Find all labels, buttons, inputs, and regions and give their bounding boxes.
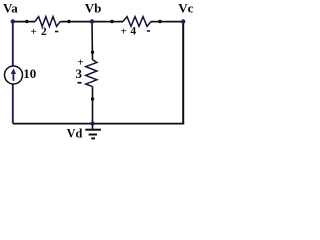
svg-text:+: + (30, 26, 36, 38)
wire Vb down to R3 (91, 22, 94, 60)
svg-text:+: + (120, 25, 126, 37)
resistor R1 terminal dot left (25, 20, 28, 23)
current source arrow (up) (12, 73, 14, 81)
node Va dot (11, 19, 15, 23)
svg-text:Va: Va (3, 0, 18, 15)
ground stub (92, 124, 94, 130)
ground bar 1 (85, 129, 101, 131)
svg-text:4: 4 (130, 26, 136, 38)
svg-text:Vb: Vb (85, 1, 102, 16)
node Vb dot (90, 19, 94, 23)
resistor R1 (2 ohm) zigzag (35, 17, 60, 27)
svg-text:10: 10 (23, 66, 36, 81)
wire left vertical (Va down to bottom) (12, 22, 14, 124)
resistor R2 terminal dot right (158, 20, 161, 23)
wire right vertical (Vc down to bottom) (182, 22, 184, 124)
resistor R3 terminal dot bottom (91, 97, 94, 100)
resistor R3 terminal dot top (91, 51, 94, 54)
resistor R2 (4 ohm) zigzag (123, 17, 151, 27)
wire R3 down to ground junction (92, 87, 94, 124)
svg-text:3: 3 (76, 66, 83, 81)
label R3 polarity minus (78, 82, 82, 84)
label R1 polarity minus (55, 31, 58, 33)
svg-text:Vc: Vc (178, 1, 193, 16)
current source I1 circle (5, 66, 23, 84)
svg-text:2: 2 (41, 26, 47, 38)
svg-text:Vd: Vd (67, 126, 83, 140)
wire bottom (13, 123, 184, 125)
node Vd junction dot (90, 121, 94, 125)
label R2 polarity minus (147, 30, 150, 32)
ground bar 3 (91, 137, 95, 139)
node Vc dot (181, 19, 185, 23)
ground bar 2 (89, 134, 97, 136)
resistor R1 terminal dot right (67, 20, 70, 23)
wire top: Va to Vb to Vc (13, 21, 35, 23)
resistor R2 terminal dot left (110, 20, 113, 23)
resistor R3 (3 ohm) vertical zigzag (86, 60, 97, 87)
